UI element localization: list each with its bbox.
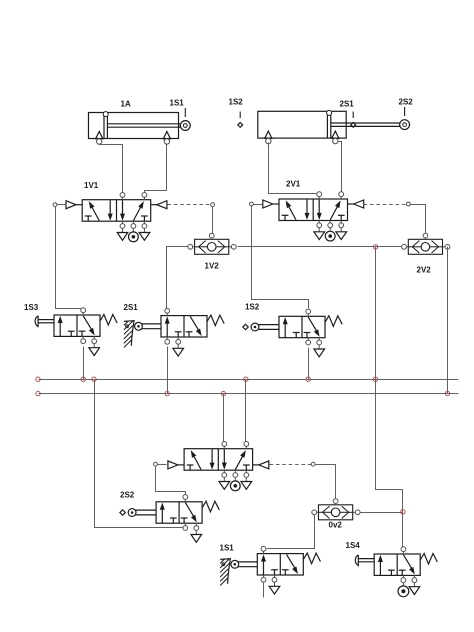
3/2 pushbutton valve 1S3 <box>35 308 117 356</box>
svg-text:2S2: 2S2 <box>399 98 414 107</box>
compressed air source under 1S4 <box>398 583 409 597</box>
cylinder 2A (double-acting, extended) <box>258 110 400 138</box>
svg-text:1A: 1A <box>121 99 131 108</box>
pilot line 0V1 left to 2S2 port 2 <box>156 467 186 495</box>
pilot line 2V1 right (dashed) to node <box>364 202 411 206</box>
position marker 1S2 <box>238 112 243 128</box>
svg-text:0v2: 0v2 <box>329 521 343 530</box>
svg-text:1S2: 1S2 <box>229 98 244 107</box>
pilot node 1V1 left <box>53 203 66 207</box>
wire bus1 to 2S2 port 1 <box>95 380 183 528</box>
wire 1S1 port 1 open stub <box>263 582 265 598</box>
wire 2A port A to 2V1 port 4 <box>269 143 320 195</box>
pilot line 1V1 right (dashed) to node <box>168 203 215 207</box>
supply bus line 1 <box>39 379 459 381</box>
open end bus2 left <box>36 391 40 395</box>
signal wire 1V2 right to 2V2 left <box>238 246 402 248</box>
cylinder 1A (double-acting, retracted) <box>89 112 181 139</box>
cylinder 2A port A <box>265 131 272 144</box>
wire 1V2 left input from 2S1 port 2 <box>167 247 188 309</box>
5/2-way double pilot valve 0V1 <box>168 442 269 491</box>
open end bus1 left <box>36 377 40 381</box>
label 1A <box>121 99 131 108</box>
junction signal-drop bus1 <box>373 377 377 381</box>
limit switch roller 1S1 at rod end <box>180 108 190 130</box>
label 1S2 valve <box>245 303 260 312</box>
wire 1A port A to 1V1 port 4 <box>100 144 123 195</box>
wire 2S1 port 1 to bus 2 <box>167 347 169 394</box>
cylinder 1A port B <box>163 132 170 145</box>
3/2 roller valve 2S1 (actuated) <box>124 308 224 356</box>
svg-text:2V2: 2V2 <box>417 266 432 275</box>
label 2S1 valve <box>124 303 139 312</box>
junction 2V2-bus2 <box>445 391 449 395</box>
label 1S1 valve <box>220 544 235 553</box>
wire node to shuttle 2V2 top <box>411 205 426 234</box>
3/2 roller valve 2S2 <box>120 495 219 543</box>
label 2S2 <box>399 98 414 107</box>
junction 0v2-right / 1S4 wire <box>401 510 405 514</box>
cylinder 1A port A <box>96 132 103 145</box>
wire 1S2 port 1 to bus 1 <box>308 348 310 380</box>
svg-text:1S1: 1S1 <box>170 99 185 108</box>
3/2 pushbutton valve 1S4 <box>355 547 437 595</box>
3/2 roller valve 1S2 <box>243 309 342 357</box>
5/2-way double pilot valve 2V1 <box>263 192 364 241</box>
wire node to shuttle 0v2 top <box>316 465 336 499</box>
label 1V2 <box>205 262 220 271</box>
svg-text:1S1: 1S1 <box>220 544 235 553</box>
junction bus1-2S2 drop <box>92 377 96 381</box>
label 2V1 <box>286 180 301 189</box>
label 1S4 <box>346 541 361 550</box>
cylinder 2A port B <box>332 131 339 144</box>
limit switch roller 2S2 at rod end <box>400 107 410 130</box>
pilot line 0V1 right (dashed) to node <box>270 462 316 466</box>
junction 1S3-bus1 <box>81 377 85 381</box>
shuttle valve 0v2 <box>312 499 360 520</box>
junction 0V1.2-bus1 <box>244 377 248 381</box>
pilot node 2V1 left <box>250 202 263 206</box>
svg-text:2S2: 2S2 <box>120 491 135 500</box>
3/2 roller valve 1S1 (actuated) <box>220 546 320 594</box>
5/2-way double pilot valve 1V1 <box>66 193 167 242</box>
junction bus1 / 1V2-2V2 signal drop <box>375 247 377 380</box>
supply bus line 2 <box>39 393 459 395</box>
label 1V1 <box>84 181 99 190</box>
wire 0v2 right input <box>360 512 403 514</box>
wire 2A port B to 2V1 port 2 <box>338 142 342 195</box>
wire bus1 to 1S4 port 2 and 0v2 right <box>376 380 403 547</box>
svg-text:1V1: 1V1 <box>84 181 99 190</box>
svg-text:2V1: 2V1 <box>286 180 301 189</box>
junction signal-drop top <box>373 245 377 249</box>
pilot node 0V1 left <box>154 462 167 466</box>
shuttle valve 2V2 <box>402 233 450 254</box>
junction 2S1-bus2 <box>165 391 169 395</box>
position marker 2S1 <box>351 112 356 128</box>
svg-text:1S2: 1S2 <box>245 303 260 312</box>
svg-text:1S3: 1S3 <box>24 303 39 312</box>
label 0v2 <box>329 521 343 530</box>
wire node to shuttle 1V2 top <box>212 207 214 234</box>
pilot line 1V1 left to 1S3 port 2 <box>56 207 84 310</box>
svg-text:1V2: 1V2 <box>205 262 220 271</box>
wire 0V1 port 2 to bus 1 <box>245 380 247 442</box>
wire 0v2 left input from 1S1 port 2 <box>267 515 315 549</box>
label 1S1 <box>170 99 185 108</box>
label 2V2 <box>417 266 432 275</box>
svg-text:2S1: 2S1 <box>124 303 139 312</box>
wire 1S3 port 1 to bus 1 <box>83 347 85 380</box>
wire 1A port B to 1V1 port 2 <box>145 144 167 195</box>
pilot line 2V1 left to 1S2 port 2 <box>252 206 309 309</box>
wire 2V2 right to supply bus 2 <box>447 247 449 394</box>
label 1S3 <box>24 303 39 312</box>
svg-text:1S4: 1S4 <box>346 541 361 550</box>
label 2S2 valve <box>120 491 135 500</box>
shuttle valve 1V2 <box>188 233 236 254</box>
wire 0V1 port 4 to bus 2 <box>223 394 225 442</box>
svg-text:2S1: 2S1 <box>340 99 355 108</box>
label 1S2 <box>229 98 244 107</box>
junction 0V1.4-bus2 <box>221 391 225 395</box>
label 2S1 <box>340 99 355 108</box>
junction 1S2-bus1 <box>306 377 310 381</box>
